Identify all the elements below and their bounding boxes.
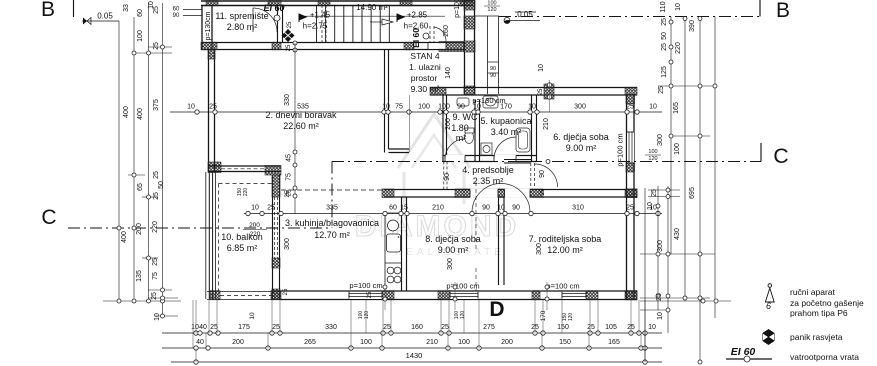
svg-text:200: 200 (232, 339, 244, 346)
svg-text:120: 120 (568, 313, 574, 322)
svg-text:75: 75 (152, 272, 159, 280)
svg-text:40: 40 (196, 339, 204, 346)
room label 10 balkon (221, 232, 263, 253)
room label 8 djecja (425, 234, 481, 255)
dim numbers top row (187, 104, 657, 111)
dim row bottom 1 (162, 331, 662, 335)
dim 140 entry (445, 67, 452, 79)
svg-text:10: 10 (497, 205, 505, 212)
kupaonica fixtures (481, 96, 530, 155)
svg-text:200: 200 (136, 223, 143, 235)
svg-text:25: 25 (153, 171, 160, 179)
svg-text:25: 25 (284, 190, 291, 198)
section line C jog (331, 162, 333, 229)
window centre marks (383, 282, 549, 310)
svg-text:10: 10 (648, 324, 656, 331)
svg-text:2.35 m²: 2.35 m² (473, 176, 504, 186)
watermark logo (355, 114, 519, 258)
svg-text:90: 90 (490, 73, 496, 79)
svg-text:300: 300 (574, 104, 586, 111)
svg-text:300: 300 (657, 240, 664, 252)
svg-text:25: 25 (587, 324, 595, 331)
room label 5 kupaonica (480, 116, 531, 137)
svg-text:50: 50 (661, 32, 668, 40)
window axis dash room8 (475, 182, 477, 291)
svg-text:EI 60: EI 60 (411, 28, 421, 48)
dim 25 southM (538, 88, 546, 195)
svg-text:25: 25 (272, 324, 280, 331)
svg-text:140: 140 (445, 67, 452, 79)
wall kitchen room8 (402, 197, 407, 291)
stairs direction arrow (302, 16, 445, 25)
dim ext line 409 (409, 95, 411, 152)
dim row mid (244, 211, 662, 215)
dim 25 south1 (283, 288, 373, 298)
svg-text:25: 25 (283, 288, 289, 295)
svg-text:220: 220 (250, 231, 261, 238)
svg-text:100: 100 (438, 104, 450, 111)
svg-text:150: 150 (559, 339, 571, 346)
flag +2.85 (397, 11, 429, 31)
wall band wc kup south (443, 155, 537, 162)
svg-text:300: 300 (657, 134, 664, 146)
svg-text:60: 60 (137, 9, 144, 17)
svg-text:D: D (489, 298, 504, 321)
svg-text:9.00 m²: 9.00 m² (566, 143, 597, 153)
symbol panik plan (282, 29, 295, 42)
svg-text:10: 10 (675, 3, 682, 11)
svg-text:45: 45 (286, 154, 293, 162)
svg-text:120: 120 (487, 7, 496, 13)
svg-text:9.30 m²: 9.30 m² (411, 84, 440, 94)
section letter C right (773, 145, 788, 168)
room label 6 djecja (553, 132, 609, 153)
svg-text:160: 160 (411, 324, 423, 331)
svg-text:100: 100 (360, 339, 372, 346)
room label 11 spremiste (215, 11, 268, 32)
svg-text:430: 430 (674, 228, 681, 240)
label 100 120 top (484, 1, 500, 14)
dim 25 balcony (284, 190, 291, 198)
svg-text:200: 200 (249, 222, 260, 229)
door room8 room7 double arc (472, 184, 530, 213)
svg-text:14.90 m²: 14.90 m² (356, 3, 388, 12)
wall east with window (626, 94, 637, 300)
svg-text:170: 170 (540, 310, 547, 321)
svg-text:100: 100 (674, 143, 681, 155)
svg-text:400: 400 (121, 231, 128, 243)
dim numbers bottom 1 (191, 324, 656, 331)
section line C left (68, 227, 332, 229)
dim row bottom 2 (162, 346, 662, 350)
dim row bottom 3 (171, 360, 662, 364)
svg-text:za početno gašenje: za početno gašenje (790, 298, 864, 308)
svg-text:vatrootporna vrata: vatrootporna vrata (790, 352, 859, 362)
label 100 120 east (645, 149, 661, 162)
dim 210 kupaonica (543, 118, 550, 130)
svg-text:4. predsoblje: 4. predsoblje (462, 165, 514, 175)
section letter D (489, 298, 504, 321)
svg-text:25: 25 (287, 21, 293, 28)
wall shaft strip (475, 16, 499, 94)
wall wc west (443, 95, 447, 162)
dim vertical 45 75 25 (286, 43, 298, 214)
svg-text:100: 100 (418, 104, 430, 111)
svg-text:60: 60 (173, 7, 180, 13)
dim 90 predsoblje (444, 173, 451, 181)
svg-text:100: 100 (487, 1, 496, 7)
svg-text:25: 25 (152, 258, 159, 266)
svg-text:6: 6 (766, 301, 771, 311)
svg-text:C: C (773, 145, 788, 168)
svg-text:1. ulazni: 1. ulazni (409, 62, 441, 72)
flag +1.45 (299, 11, 331, 31)
door wc arc (445, 139, 465, 159)
svg-text:100: 100 (648, 149, 657, 155)
room label 7 roditeljska (529, 234, 602, 255)
svg-text:6. dječja soba: 6. dječja soba (553, 132, 609, 142)
dash kitchen living (281, 189, 384, 191)
dim 90 room6 door (539, 170, 546, 178)
label stairs area (356, 3, 388, 12)
legend panik text (790, 332, 843, 342)
svg-text:25: 25 (651, 189, 658, 197)
wall entry east (464, 0, 475, 95)
marker -0.05 left (82, 12, 119, 25)
label window p100 kitchen (349, 281, 382, 290)
svg-text:150: 150 (557, 324, 569, 331)
right dimension chains (640, 17, 731, 365)
svg-text:6.85 m²: 6.85 m² (227, 243, 258, 253)
svg-text:25: 25 (441, 324, 449, 331)
svg-text:100: 100 (137, 30, 144, 42)
door room6 dashed jamb (531, 163, 535, 187)
dim 330 vertical (284, 94, 291, 106)
wall band south with windows (207, 291, 637, 300)
svg-text:90: 90 (490, 66, 496, 72)
svg-text:25: 25 (661, 43, 668, 51)
svg-text:220: 220 (243, 188, 249, 197)
room label 2 dnevni (265, 110, 337, 131)
door entry EI60 (423, 26, 446, 50)
room label 1 ulazni (409, 51, 441, 94)
door kup arc (494, 137, 516, 159)
svg-text:10: 10 (191, 324, 199, 331)
dim 300 kitchen (284, 238, 291, 250)
svg-text:0.05: 0.05 (97, 12, 113, 21)
svg-text:2. dnevni boravak: 2. dnevni boravak (265, 110, 337, 120)
kitchen counter fixtures (385, 213, 402, 291)
svg-text:25: 25 (538, 88, 544, 95)
svg-text:695: 695 (689, 187, 696, 199)
svg-text:9.00 m²: 9.00 m² (438, 245, 469, 255)
legend extinguisher symbol (765, 284, 774, 311)
svg-text:25: 25 (626, 205, 634, 212)
wall wc kup divider (475, 100, 480, 162)
svg-text:panik rasvjeta: panik rasvjeta (790, 332, 843, 342)
svg-text:10: 10 (187, 104, 195, 111)
svg-text:170: 170 (500, 104, 512, 111)
svg-text:25: 25 (367, 291, 373, 298)
svg-text:260: 260 (443, 25, 450, 37)
svg-text:12.00 m²: 12.00 m² (547, 245, 583, 255)
legend vrata text (790, 352, 859, 362)
wall west living (208, 49, 221, 173)
svg-text:535: 535 (297, 104, 309, 111)
svg-text:p=100: p=100 (454, 0, 461, 18)
section line B right (499, 0, 760, 17)
svg-text:90: 90 (539, 170, 546, 178)
svg-text:1.80: 1.80 (451, 123, 469, 133)
svg-text:400: 400 (123, 106, 130, 118)
svg-text:+2.85: +2.85 (407, 11, 428, 20)
svg-text:33: 33 (123, 4, 130, 12)
svg-text:C: C (41, 206, 56, 229)
svg-text:5. kupaonica: 5. kupaonica (480, 116, 531, 126)
svg-text:120: 120 (460, 311, 466, 320)
dim extension lines bottom (193, 300, 645, 362)
wall stairwell top (201, 1, 473, 6)
dash predsoblje west (444, 162, 447, 190)
wall band rooms north (430, 80, 637, 112)
svg-text:200: 200 (501, 339, 513, 346)
svg-text:10: 10 (528, 104, 536, 111)
svg-text:135: 135 (136, 270, 143, 282)
stairs cut dashes (322, 5, 326, 43)
dim number 1430 (406, 351, 423, 360)
svg-text:165: 165 (673, 102, 680, 114)
dim numbers mid row (251, 205, 657, 212)
svg-text:65: 65 (137, 183, 144, 191)
svg-text:25: 25 (383, 324, 391, 331)
svg-text:330: 330 (325, 324, 337, 331)
svg-text:25: 25 (153, 192, 160, 200)
wall band balcony door (208, 166, 281, 176)
svg-text:50: 50 (158, 181, 165, 189)
svg-text:10: 10 (647, 202, 654, 210)
svg-text:p=100 cm: p=100 cm (546, 282, 579, 291)
room label 3 kuhinja (285, 218, 379, 240)
svg-text:100: 100 (458, 339, 470, 346)
svg-text:25: 25 (540, 188, 546, 195)
wall balcony east (272, 175, 280, 300)
svg-text:2.80 m²: 2.80 m² (227, 22, 258, 32)
room label 4 predsoblje (462, 165, 514, 186)
svg-text:p=100 cm: p=100 cm (446, 282, 479, 291)
dim row top (170, 110, 662, 114)
svg-text:12.70 m²: 12.70 m² (314, 230, 350, 240)
svg-text:25: 25 (626, 104, 634, 111)
svg-text:90: 90 (457, 104, 465, 111)
wall band north (201, 42, 464, 50)
svg-text:330: 330 (284, 94, 291, 106)
svg-text:10: 10 (154, 313, 161, 321)
svg-text:10: 10 (657, 312, 664, 320)
svg-text:75: 75 (286, 173, 293, 181)
svg-text:25: 25 (209, 104, 217, 111)
dim 260 stair (443, 25, 450, 37)
svg-text:220: 220 (675, 42, 682, 54)
wall band corridor south (382, 189, 637, 198)
svg-text:25: 25 (267, 205, 275, 212)
legend EI60 (726, 346, 772, 362)
dim 300 room8 (447, 258, 454, 270)
marker 0.05 right (504, 10, 540, 24)
wall stub predsoblje east (504, 160, 531, 164)
svg-text:400: 400 (137, 108, 144, 120)
svg-text:310: 310 (572, 205, 584, 212)
svg-text:300: 300 (536, 243, 543, 255)
svg-text:300: 300 (284, 238, 291, 250)
section line C right (332, 143, 761, 164)
legend extinguisher text (790, 287, 864, 318)
door room6 arc (535, 164, 558, 187)
svg-text:110: 110 (660, 1, 667, 12)
tiny dims windows (249, 310, 574, 321)
dim numbers bottom 2 (196, 339, 620, 346)
label EI 60 rotated (411, 28, 421, 48)
svg-text:25: 25 (286, 44, 292, 51)
label EI 60 spremiste (263, 3, 284, 13)
dim 300 room7 (536, 243, 543, 255)
svg-text:335: 335 (326, 205, 338, 212)
svg-text:90: 90 (482, 205, 490, 212)
legend panik symbol (763, 329, 775, 345)
svg-text:B: B (776, 0, 790, 22)
svg-text:11. spremište: 11. spremište (215, 11, 268, 21)
svg-text:125: 125 (661, 66, 668, 78)
svg-text:h=2.60: h=2.60 (404, 22, 429, 31)
label 90 90 shaft (490, 66, 496, 79)
label window p100 room7 (546, 282, 579, 291)
svg-text:10: 10 (538, 64, 545, 72)
svg-text:210: 210 (543, 118, 550, 130)
svg-text:375: 375 (153, 99, 160, 111)
svg-text:165: 165 (608, 339, 620, 346)
svg-text:220: 220 (152, 221, 159, 233)
svg-text:75: 75 (395, 104, 403, 111)
svg-text:275: 275 (483, 324, 495, 331)
svg-text:15: 15 (400, 205, 408, 212)
svg-text:25: 25 (151, 292, 158, 300)
svg-text:60: 60 (389, 205, 397, 212)
svg-text:3.40 m²: 3.40 m² (491, 127, 522, 137)
svg-text:p=130cm: p=130cm (205, 11, 212, 40)
svg-text:3. kuhinja/blagovaonica: 3. kuhinja/blagovaonica (285, 218, 379, 228)
svg-text:90: 90 (173, 13, 180, 19)
wc fixtures (457, 98, 474, 144)
svg-text:390: 390 (689, 20, 696, 32)
svg-text:25: 25 (658, 86, 665, 94)
svg-text:40: 40 (199, 324, 207, 331)
svg-text:1430: 1430 (406, 351, 423, 360)
svg-text:25: 25 (153, 6, 160, 14)
svg-text:265: 265 (304, 339, 316, 346)
svg-text:EI 60: EI 60 (731, 346, 756, 358)
svg-text:210: 210 (432, 205, 444, 212)
right dim numbers (538, 1, 696, 320)
wall balcony west (206, 172, 272, 299)
svg-text:B: B (41, 0, 55, 21)
svg-text:10: 10 (473, 104, 481, 111)
svg-text:90: 90 (512, 205, 520, 212)
wall entry west (385, 50, 410, 153)
section line B left bracket (73, 0, 75, 17)
label p130 kupaonica (472, 96, 505, 105)
svg-text:25: 25 (656, 293, 663, 301)
svg-text:0.05: 0.05 (517, 10, 533, 19)
svg-text:175: 175 (238, 324, 250, 331)
svg-text:prahom tipa P6: prahom tipa P6 (790, 308, 848, 318)
svg-text:210: 210 (426, 339, 438, 346)
dim 200 wc (445, 118, 452, 130)
tiny dims balcony (237, 188, 267, 238)
label p130 spremiste (205, 11, 212, 40)
left dimension chains (103, 3, 181, 318)
svg-text:10: 10 (649, 104, 657, 111)
wall spremiste east (278, 5, 283, 43)
svg-text:+1.45: +1.45 (310, 11, 331, 20)
svg-text:p=100 cm: p=100 cm (349, 281, 382, 290)
svg-text:STAN 4: STAN 4 (410, 51, 439, 61)
wall stub entry (439, 42, 464, 52)
svg-text:8. dječja soba: 8. dječja soba (425, 234, 481, 244)
svg-text:105: 105 (605, 324, 617, 331)
svg-text:300: 300 (447, 258, 454, 270)
svg-text:h=2.75: h=2.75 (303, 22, 328, 31)
door spremiste (253, 8, 280, 32)
label p100 shaft (454, 0, 461, 18)
svg-text:10: 10 (251, 205, 259, 212)
svg-text:90: 90 (444, 173, 451, 181)
svg-text:ručni aparat: ručni aparat (790, 287, 836, 297)
svg-text:120: 120 (364, 311, 370, 320)
section letter B right (776, 0, 790, 22)
stairs treads (317, 5, 390, 43)
svg-text:prostor: prostor (411, 73, 438, 83)
label window p100 room6 (616, 133, 625, 166)
left dim numbers (121, 1, 165, 321)
svg-text:m²: m² (456, 133, 467, 143)
svg-text:7. roditeljska soba: 7. roditeljska soba (529, 234, 602, 244)
room label 9 wc (451, 112, 478, 143)
svg-text:22.60 m²: 22.60 m² (283, 121, 319, 131)
wall room6 west (532, 95, 537, 162)
svg-text:25: 25 (661, 18, 668, 26)
window spremiste west (173, 7, 202, 20)
svg-text:25: 25 (153, 42, 160, 50)
svg-text:10: 10 (382, 104, 390, 111)
dim 25 at flag (286, 21, 297, 52)
wall spremiste west (202, 5, 212, 49)
section letter C left (41, 206, 56, 229)
wall room8 room7 divider (498, 189, 505, 285)
svg-text:200: 200 (445, 118, 452, 130)
section letter B left (41, 0, 55, 21)
label window p100 room8 (446, 282, 479, 291)
svg-text:10: 10 (249, 312, 256, 320)
